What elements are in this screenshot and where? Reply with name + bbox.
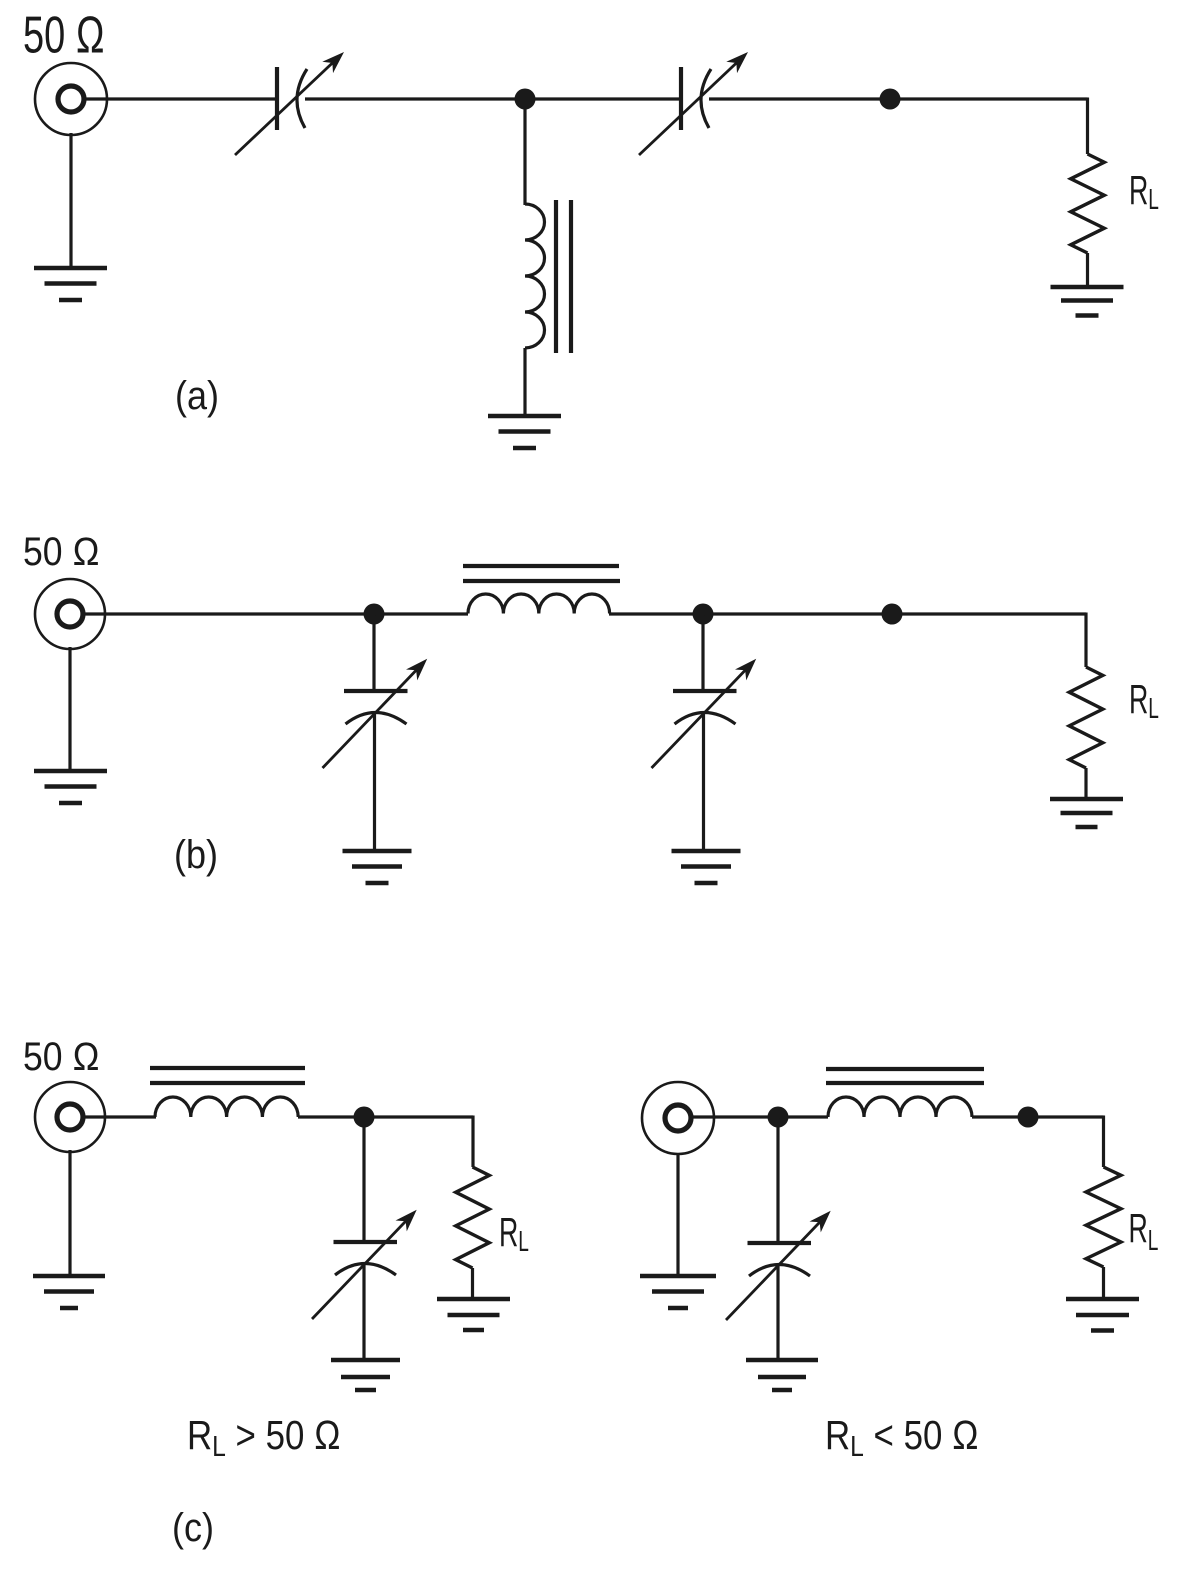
wire (b) RL to ground	[1084, 768, 1087, 797]
source connector (c right)	[642, 1082, 714, 1154]
wire (c left) RL to ground	[471, 1268, 474, 1297]
ground (b) below RL	[1050, 799, 1123, 827]
label (b)	[174, 833, 218, 877]
svg-text:50 Ω: 50 Ω	[23, 6, 105, 64]
wire (c right) source to ground	[676, 1154, 679, 1274]
wire (b) node B2 to node B3	[703, 612, 892, 615]
wire (b) L2 to node B2	[609, 612, 703, 615]
ground (b) below C4	[672, 851, 741, 883]
svg-text:(b): (b)	[174, 833, 218, 877]
wire (b) C3 to ground	[373, 712, 376, 849]
source connector 50-ohm (b)	[35, 579, 105, 649]
wire (c left) C5 to ground	[362, 1263, 365, 1358]
resistor RL (a)	[1071, 154, 1105, 253]
resistor RL (c left)	[456, 1167, 490, 1268]
svg-text:(c): (c)	[172, 1506, 214, 1550]
svg-text:RL: RL	[499, 1211, 529, 1258]
label (a)	[175, 374, 219, 418]
svg-text:RL < 50 Ω: RL < 50 Ω	[825, 1413, 979, 1462]
ground (c left) below C5	[331, 1360, 400, 1390]
variable capacitor C1 (a) series	[235, 46, 349, 155]
wire (c left) source to ground	[68, 1150, 71, 1274]
wire (a) source to ground	[69, 133, 72, 266]
node D1 junction (c right)	[768, 1107, 789, 1128]
wire (c right) L4 to node D2	[972, 1115, 1028, 1118]
wire (c right) node D1 to L4	[778, 1115, 828, 1118]
inductor L4 (c right) series with iron core	[826, 1069, 984, 1117]
wire (b) node B3 to RL corner	[892, 613, 1086, 668]
svg-text:(a): (a)	[175, 374, 219, 418]
wire (c right) source to node D1	[691, 1115, 778, 1118]
wire (a) C2 to node A2	[709, 97, 890, 100]
label: 50 Ω source impedance (a)	[23, 6, 105, 64]
wire (b) node B1 down to C3	[372, 614, 375, 689]
resistor RL (b)	[1069, 667, 1103, 768]
ground (a) below RL	[1051, 287, 1124, 316]
wire (c left) L3 to node C1	[298, 1115, 364, 1118]
node C1 junction (c left)	[354, 1107, 375, 1128]
inductor L2 (b) series with iron core	[463, 566, 620, 614]
wire (b) C4 to ground	[702, 712, 705, 849]
wire (c right) node D2 to RL corner	[1028, 1116, 1104, 1168]
wire (b) node B2 down to C4	[701, 614, 704, 689]
wire (b) source to ground	[68, 647, 71, 769]
node D2 junction (c right)	[1018, 1107, 1039, 1128]
label RL (c right)	[1129, 1207, 1159, 1257]
svg-text:RL > 50 Ω: RL > 50 Ω	[187, 1413, 341, 1462]
svg-text:50 Ω: 50 Ω	[23, 529, 100, 573]
label RL &lt; 50 Ω (c right)	[825, 1413, 979, 1462]
source connector 50-ohm (c left)	[35, 1082, 105, 1152]
variable capacitor C4 (b) shunt	[652, 653, 762, 768]
inductor L3 (c left) series with iron core	[150, 1068, 305, 1117]
node B2 junction (b)	[693, 604, 714, 625]
ground (b) below C3	[343, 851, 412, 883]
inductor L1 (a) shunt with iron core	[525, 200, 571, 353]
source connector 50-ohm (a)	[35, 63, 107, 135]
wire (c left) source to L3	[83, 1115, 156, 1118]
svg-text:RL: RL	[1129, 678, 1159, 725]
ground (c right) below RL	[1066, 1299, 1139, 1331]
wire (b) source to node B1	[83, 612, 374, 615]
label RL (a)	[1129, 169, 1159, 216]
ground (a) below source	[34, 268, 107, 300]
wire (a) RL to ground	[1086, 253, 1089, 286]
label RL (b)	[1129, 678, 1159, 725]
wire (a) node A1 down to L1	[523, 99, 526, 205]
svg-text:RL: RL	[1129, 169, 1159, 216]
node B1 junction (b)	[364, 604, 385, 625]
node A2 junction (a)	[880, 89, 901, 110]
variable capacitor C2 (a) series	[639, 46, 753, 155]
ground (c right) below C6	[746, 1360, 818, 1390]
variable capacitor C6 (c right) shunt	[726, 1205, 836, 1320]
ground (a) below L1	[488, 416, 561, 448]
svg-text:50 Ω: 50 Ω	[23, 1034, 100, 1078]
wire (c left) node C1 to RL corner	[364, 1116, 473, 1168]
label (c)	[172, 1506, 214, 1550]
ground (c left) below source	[33, 1276, 105, 1308]
variable capacitor C3 (b) shunt	[323, 653, 433, 768]
wire (a) source to C1	[84, 97, 275, 100]
resistor RL (c right)	[1086, 1167, 1121, 1267]
variable capacitor C5 (c left) shunt	[312, 1204, 422, 1319]
label: 50 Ω source impedance (b)	[23, 529, 100, 573]
wire (a) C1 to node A1	[305, 97, 525, 100]
wire (c right) C6 to ground	[776, 1264, 779, 1358]
label RL &gt; 50 Ω (c left)	[187, 1413, 341, 1462]
ground (c left) below RL	[437, 1299, 510, 1330]
label RL (c left)	[499, 1211, 529, 1258]
svg-text:RL: RL	[1129, 1207, 1159, 1257]
wire (c right) RL to ground	[1102, 1267, 1105, 1297]
node A1 junction (a)	[515, 89, 536, 110]
wire (c right) node D1 down to C6	[776, 1117, 779, 1241]
label: 50 Ω source impedance (c)	[23, 1034, 100, 1078]
ground (b) below source	[34, 771, 107, 803]
wire (a) node A1 to C2	[525, 97, 679, 100]
wire (c left) node C1 down to C5	[362, 1117, 365, 1240]
wire (b) node B1 to L2	[374, 612, 468, 615]
wire (a) node A2 to RL corner	[890, 98, 1088, 155]
ground (c right) below source	[640, 1276, 716, 1308]
wire (a) L1 to ground	[523, 348, 526, 416]
node B3 junction (b)	[882, 604, 903, 625]
